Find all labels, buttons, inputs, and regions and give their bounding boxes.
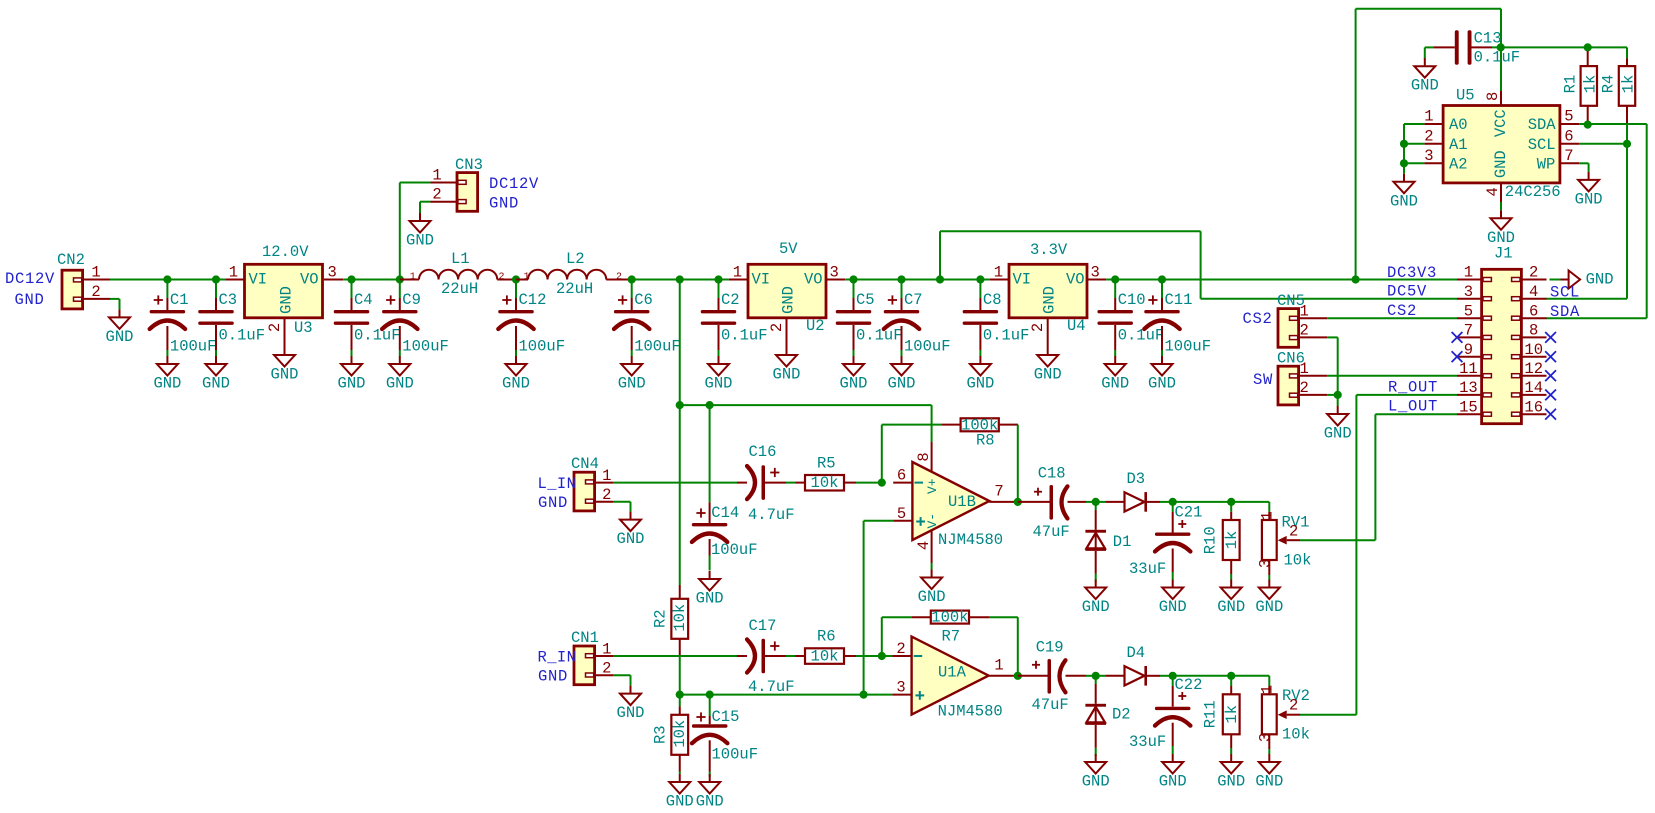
- junction: [1158, 275, 1166, 283]
- svg-text:J1: J1: [1494, 245, 1513, 263]
- ground: [705, 356, 733, 393]
- svg-text:R3: R3: [652, 725, 670, 744]
- capacitor C18: [1018, 465, 1096, 542]
- svg-text:1: 1: [229, 264, 238, 282]
- wire: [1327, 394, 1337, 396]
- svg-text:DC12V: DC12V: [5, 270, 55, 288]
- net label GND: [538, 668, 568, 686]
- junction: [1169, 498, 1177, 506]
- svg-text:C18: C18: [1038, 465, 1066, 483]
- junction: [676, 691, 684, 699]
- ground: [502, 356, 530, 393]
- wire: [1500, 202, 1502, 210]
- svg-text:R6: R6: [817, 628, 836, 646]
- svg-text:14: 14: [1524, 379, 1543, 397]
- svg-text:GND: GND: [406, 232, 434, 250]
- wire: [613, 482, 737, 484]
- junction: [1014, 672, 1022, 680]
- capacitor C2: [701, 280, 768, 357]
- ground: [1101, 356, 1129, 393]
- svg-text:R2: R2: [652, 609, 670, 628]
- ground: [1159, 754, 1187, 791]
- junction: [1092, 672, 1100, 680]
- svg-text:5: 5: [1564, 108, 1573, 126]
- svg-text:C4: C4: [354, 291, 373, 309]
- resistor R3: [652, 695, 690, 774]
- wire: [679, 280, 681, 586]
- ground: [617, 686, 645, 723]
- svg-text:GND: GND: [1217, 598, 1245, 616]
- svg-text:GND: GND: [538, 668, 568, 686]
- ground: [1034, 347, 1062, 384]
- svg-text:VO: VO: [1066, 271, 1085, 289]
- ground: [406, 213, 434, 250]
- svg-text:VO: VO: [804, 271, 823, 289]
- svg-text:A2: A2: [1449, 155, 1468, 173]
- svg-text:GND: GND: [271, 366, 299, 384]
- wire: [1356, 9, 1501, 280]
- svg-text:C19: C19: [1036, 638, 1064, 656]
- svg-text:2: 2: [602, 660, 611, 678]
- svg-text:WP: WP: [1537, 155, 1556, 173]
- junction: [1111, 275, 1119, 283]
- net label L_OUT: [1388, 398, 1438, 416]
- net label DC12V: [5, 270, 55, 288]
- svg-text:CN4: CN4: [571, 455, 599, 473]
- svg-text:9: 9: [1464, 341, 1473, 359]
- svg-text:GND: GND: [617, 704, 645, 722]
- svg-text:C15: C15: [712, 708, 740, 726]
- junction: [1092, 498, 1100, 506]
- svg-text:R_IN: R_IN: [538, 649, 577, 667]
- svg-text:GND: GND: [202, 375, 230, 393]
- ground: [1217, 580, 1245, 617]
- capacitor C3: [198, 280, 265, 357]
- wire: [1173, 501, 1270, 503]
- svg-text:10k: 10k: [811, 648, 839, 666]
- junction: [878, 652, 886, 660]
- svg-text:C7: C7: [904, 291, 923, 309]
- svg-text:2: 2: [498, 272, 504, 283]
- svg-text:DC12V: DC12V: [489, 175, 539, 193]
- ground: [202, 356, 230, 393]
- wire: [343, 279, 729, 281]
- svg-text:CN5: CN5: [1277, 292, 1305, 310]
- svg-text:1: 1: [602, 467, 611, 485]
- connector CN3: [431, 156, 483, 211]
- inductor L1: [400, 250, 516, 298]
- svg-text:GND: GND: [1159, 773, 1187, 791]
- svg-text:1: 1: [994, 657, 1003, 675]
- svg-text:2: 2: [768, 323, 786, 332]
- resistor R1: [1562, 51, 1600, 125]
- resistor R10: [1202, 502, 1242, 580]
- svg-text:100uF: 100uF: [904, 338, 951, 356]
- svg-text:8: 8: [1529, 322, 1538, 340]
- wire: [1424, 47, 1426, 58]
- svg-text:1: 1: [410, 272, 416, 283]
- wire: [680, 405, 932, 442]
- svg-text:R7: R7: [942, 628, 961, 646]
- capacitor C15: [692, 695, 758, 777]
- svg-text:8: 8: [915, 452, 933, 461]
- ground: [271, 347, 299, 384]
- junction: [1400, 159, 1408, 167]
- wire L_OUT: [1375, 414, 1457, 540]
- ground: [1148, 356, 1176, 393]
- wire: [110, 279, 225, 281]
- regulator U3: [225, 243, 343, 348]
- svg-text:GND: GND: [1324, 425, 1352, 443]
- svg-text:C22: C22: [1175, 676, 1203, 694]
- svg-text:CS2: CS2: [1387, 302, 1417, 320]
- wire: [931, 563, 933, 570]
- svg-text:GND: GND: [618, 375, 646, 393]
- capacitor C19: [1018, 638, 1096, 714]
- svg-text:2: 2: [432, 186, 441, 204]
- capacitor C11: [1144, 280, 1211, 357]
- svg-text:6: 6: [897, 467, 906, 485]
- svg-text:GND: GND: [1390, 192, 1418, 210]
- svg-text:3: 3: [1091, 264, 1100, 282]
- junction: [706, 401, 714, 409]
- ground: [773, 347, 801, 384]
- svg-text:GND: GND: [773, 366, 801, 384]
- junction: [897, 275, 905, 283]
- svg-text:U5: U5: [1456, 87, 1475, 105]
- svg-text:10k: 10k: [1282, 726, 1310, 744]
- svg-text:7: 7: [1464, 322, 1473, 340]
- net label GND: [15, 291, 45, 309]
- ground: [1082, 580, 1110, 617]
- svg-text:GND: GND: [1217, 773, 1245, 791]
- wire: [882, 425, 942, 483]
- svg-text:U1A: U1A: [938, 663, 967, 681]
- net label GND: [489, 195, 519, 213]
- wire: [1327, 375, 1457, 377]
- eeprom U5: [1424, 87, 1579, 203]
- svg-text:100uF: 100uF: [712, 746, 759, 764]
- svg-text:C6: C6: [634, 291, 653, 309]
- svg-text:VO: VO: [300, 271, 319, 289]
- capacitor C6: [614, 280, 681, 357]
- svg-text:R5: R5: [817, 455, 836, 473]
- svg-text:1k: 1k: [1223, 531, 1241, 550]
- svg-text:2: 2: [616, 272, 622, 283]
- svg-text:C11: C11: [1165, 291, 1193, 309]
- svg-text:24C256: 24C256: [1505, 183, 1561, 201]
- svg-text:33uF: 33uF: [1129, 560, 1166, 578]
- svg-text:2: 2: [1529, 264, 1538, 282]
- junction: [706, 691, 714, 699]
- potentiometer RV1: [1257, 502, 1312, 580]
- junction: [676, 275, 684, 283]
- svg-text:3: 3: [830, 264, 839, 282]
- svg-text:U2: U2: [806, 317, 825, 335]
- resistor R11: [1202, 676, 1242, 754]
- diode D3: [1096, 470, 1173, 512]
- svg-text:5V: 5V: [779, 240, 798, 258]
- svg-text:1: 1: [1259, 685, 1277, 694]
- svg-text:47uF: 47uF: [1032, 696, 1069, 714]
- junction: [1400, 140, 1408, 148]
- svg-text:GND: GND: [1041, 286, 1059, 314]
- wire: [1106, 279, 1457, 281]
- diode D4: [1096, 644, 1173, 686]
- svg-text:13: 13: [1459, 379, 1478, 397]
- capacitor C21: [1129, 502, 1202, 580]
- svg-text:16: 16: [1524, 398, 1543, 416]
- resistor R7: [912, 609, 990, 646]
- op-amp U1B: [893, 442, 1018, 563]
- ground: [1217, 754, 1245, 791]
- svg-text:GND: GND: [502, 375, 530, 393]
- svg-text:3: 3: [1464, 283, 1473, 301]
- svg-text:GND: GND: [386, 375, 414, 393]
- svg-text:2: 2: [1300, 322, 1309, 340]
- svg-text:D3: D3: [1127, 470, 1146, 488]
- svg-text:C21: C21: [1175, 504, 1203, 522]
- junction: [860, 691, 868, 699]
- svg-text:U1B: U1B: [948, 493, 976, 511]
- svg-text:C13: C13: [1474, 30, 1502, 48]
- net label R_OUT: [1388, 379, 1438, 397]
- junction: [976, 275, 984, 283]
- capacitor C10: [1097, 280, 1164, 357]
- svg-text:D4: D4: [1127, 644, 1146, 662]
- svg-text:15: 15: [1459, 398, 1478, 416]
- junction: [396, 275, 404, 283]
- junction: [1014, 498, 1022, 506]
- svg-text:C2: C2: [721, 291, 740, 309]
- svg-text:7: 7: [1564, 147, 1573, 165]
- connector CN2: [57, 251, 110, 309]
- resistor R2: [652, 585, 690, 695]
- wire: [400, 183, 431, 280]
- svg-text:2: 2: [1289, 523, 1298, 541]
- svg-text:SCL: SCL: [1550, 284, 1580, 302]
- svg-text:U4: U4: [1067, 317, 1086, 335]
- capacitor C8: [963, 280, 1030, 357]
- op-amp U1A: [892, 637, 1017, 721]
- wire: [864, 521, 894, 695]
- wire SCL: [1546, 144, 1627, 299]
- no-connect pins: [1452, 332, 1556, 420]
- junction: [1497, 43, 1505, 51]
- svg-text:100uF: 100uF: [711, 541, 758, 559]
- svg-text:V+: V+: [925, 478, 940, 494]
- svg-text:5: 5: [1464, 302, 1473, 320]
- wire: [1300, 539, 1375, 541]
- svg-text:33uF: 33uF: [1129, 733, 1166, 751]
- junction: [628, 275, 636, 283]
- svg-text:3: 3: [1257, 733, 1275, 742]
- wire: [845, 279, 990, 281]
- svg-text:1: 1: [1424, 108, 1433, 126]
- resistor R8: [941, 416, 1018, 449]
- ground: [153, 356, 181, 393]
- svg-text:R8: R8: [976, 431, 995, 449]
- svg-text:0.1uF: 0.1uF: [219, 327, 266, 345]
- svg-text:0.1uF: 0.1uF: [354, 327, 401, 345]
- resistor R6: [796, 628, 893, 666]
- ground: [1255, 580, 1283, 617]
- svg-text:GND: GND: [278, 286, 296, 314]
- wire SDA: [1546, 124, 1647, 318]
- svg-text:1k: 1k: [1581, 75, 1599, 94]
- svg-text:C14: C14: [711, 504, 739, 522]
- svg-text:0.1uF: 0.1uF: [983, 327, 1030, 345]
- svg-text:R11: R11: [1202, 700, 1220, 728]
- ground: [618, 356, 646, 393]
- header J1: [1457, 245, 1547, 424]
- wire: [1579, 163, 1589, 172]
- wire: [709, 405, 711, 502]
- svg-text:3: 3: [1257, 559, 1275, 568]
- svg-text:1k: 1k: [1620, 75, 1638, 94]
- svg-text:0.1uF: 0.1uF: [1474, 49, 1521, 67]
- svg-text:C17: C17: [749, 617, 777, 635]
- resistor R4: [1599, 58, 1637, 144]
- svg-text:8: 8: [1484, 92, 1502, 101]
- net label CS2: [1243, 310, 1273, 328]
- net label GND: [538, 494, 568, 512]
- svg-text:3.3V: 3.3V: [1030, 241, 1068, 259]
- svg-text:L_OUT: L_OUT: [1388, 398, 1438, 416]
- wire: [420, 202, 431, 213]
- svg-text:CN1: CN1: [571, 629, 599, 647]
- junction: [936, 275, 944, 283]
- svg-text:22uH: 22uH: [556, 280, 593, 298]
- junction: [1334, 391, 1342, 399]
- svg-text:GND: GND: [705, 375, 733, 393]
- svg-text:0.1uF: 0.1uF: [1118, 327, 1165, 345]
- junction: [1352, 275, 1360, 283]
- ground: [1487, 210, 1515, 247]
- svg-text:4: 4: [1484, 187, 1502, 196]
- svg-text:CS2: CS2: [1243, 310, 1273, 328]
- svg-text:4.7uF: 4.7uF: [748, 678, 795, 696]
- svg-text:U3: U3: [294, 319, 313, 337]
- svg-text:GND: GND: [918, 588, 946, 606]
- svg-text:3: 3: [328, 264, 337, 282]
- svg-text:GND: GND: [696, 590, 724, 608]
- wire: [110, 299, 120, 310]
- svg-text:GND: GND: [106, 328, 134, 346]
- svg-text:GND: GND: [1082, 773, 1110, 791]
- svg-text:CN2: CN2: [57, 251, 85, 269]
- junction: [512, 275, 520, 283]
- svg-text:3: 3: [1424, 147, 1433, 165]
- svg-text:R10: R10: [1202, 526, 1220, 554]
- svg-text:C5: C5: [856, 291, 875, 309]
- svg-text:100uF: 100uF: [402, 338, 449, 356]
- svg-text:GND: GND: [1255, 773, 1283, 791]
- junction: [1227, 498, 1235, 506]
- svg-text:SCL: SCL: [1528, 136, 1556, 154]
- svg-text:V-: V-: [925, 513, 940, 529]
- wire: [1492, 47, 1627, 58]
- svg-text:100uF: 100uF: [170, 338, 217, 356]
- svg-text:A1: A1: [1449, 136, 1468, 154]
- svg-text:1: 1: [1464, 264, 1473, 282]
- ground: [1159, 580, 1187, 617]
- svg-text:1: 1: [1259, 511, 1277, 520]
- regulator U2: [729, 240, 845, 347]
- svg-text:GND: GND: [15, 291, 45, 309]
- svg-text:GND: GND: [617, 530, 645, 548]
- svg-text:12.0V: 12.0V: [262, 243, 309, 261]
- junction: [1169, 672, 1177, 680]
- wire: [1404, 124, 1424, 174]
- svg-text:10k: 10k: [671, 604, 689, 632]
- resistor R5: [796, 455, 882, 493]
- svg-text:GND: GND: [1148, 375, 1176, 393]
- capacitor C9: [382, 280, 449, 357]
- svg-text:10k: 10k: [1284, 552, 1312, 570]
- connector CN4: [571, 455, 613, 511]
- ground: [106, 309, 134, 346]
- wire: [940, 231, 1201, 298]
- svg-text:1: 1: [432, 167, 441, 185]
- ground: [386, 356, 414, 393]
- svg-text:1: 1: [523, 272, 529, 283]
- svg-text:5: 5: [897, 505, 906, 523]
- svg-text:100uF: 100uF: [1165, 338, 1212, 356]
- svg-text:C10: C10: [1118, 291, 1146, 309]
- ground: [1390, 174, 1418, 211]
- wire CS2: [1327, 317, 1457, 319]
- svg-text:R_OUT: R_OUT: [1388, 379, 1438, 397]
- net label SDA: [1550, 303, 1580, 321]
- svg-text:VCC: VCC: [1492, 109, 1510, 137]
- svg-text:C16: C16: [749, 443, 777, 461]
- svg-text:C8: C8: [983, 291, 1002, 309]
- svg-text:GND: GND: [1411, 77, 1439, 95]
- wire: [680, 694, 893, 696]
- svg-text:GND: GND: [1255, 598, 1283, 616]
- ground: [1550, 279, 1561, 281]
- net label CS2: [1387, 302, 1417, 320]
- net label DC5V: [1387, 283, 1427, 301]
- ground: [1082, 754, 1110, 791]
- svg-text:GND: GND: [888, 375, 916, 393]
- junction: [347, 275, 355, 283]
- junction: [163, 275, 171, 283]
- svg-text:VI: VI: [249, 271, 268, 289]
- connector CN5: [1277, 292, 1327, 347]
- svg-text:C3: C3: [219, 291, 238, 309]
- junction: [1227, 672, 1235, 680]
- wire: [882, 617, 912, 656]
- svg-text:10k: 10k: [671, 720, 689, 748]
- diode D1: [1085, 502, 1131, 582]
- svg-text:2: 2: [602, 486, 611, 504]
- svg-text:2: 2: [1289, 697, 1298, 715]
- svg-text:22uH: 22uH: [441, 280, 478, 298]
- capacitor C5: [836, 280, 903, 357]
- svg-text:47uF: 47uF: [1033, 523, 1070, 541]
- svg-text:GND: GND: [966, 375, 994, 393]
- svg-text:C1: C1: [170, 291, 189, 309]
- svg-text:7: 7: [994, 483, 1003, 501]
- svg-text:C9: C9: [402, 291, 421, 309]
- ground: [696, 774, 724, 811]
- connector CN1: [571, 629, 613, 685]
- ground: [617, 512, 645, 548]
- junction: [714, 275, 722, 283]
- capacitor C4: [334, 280, 401, 357]
